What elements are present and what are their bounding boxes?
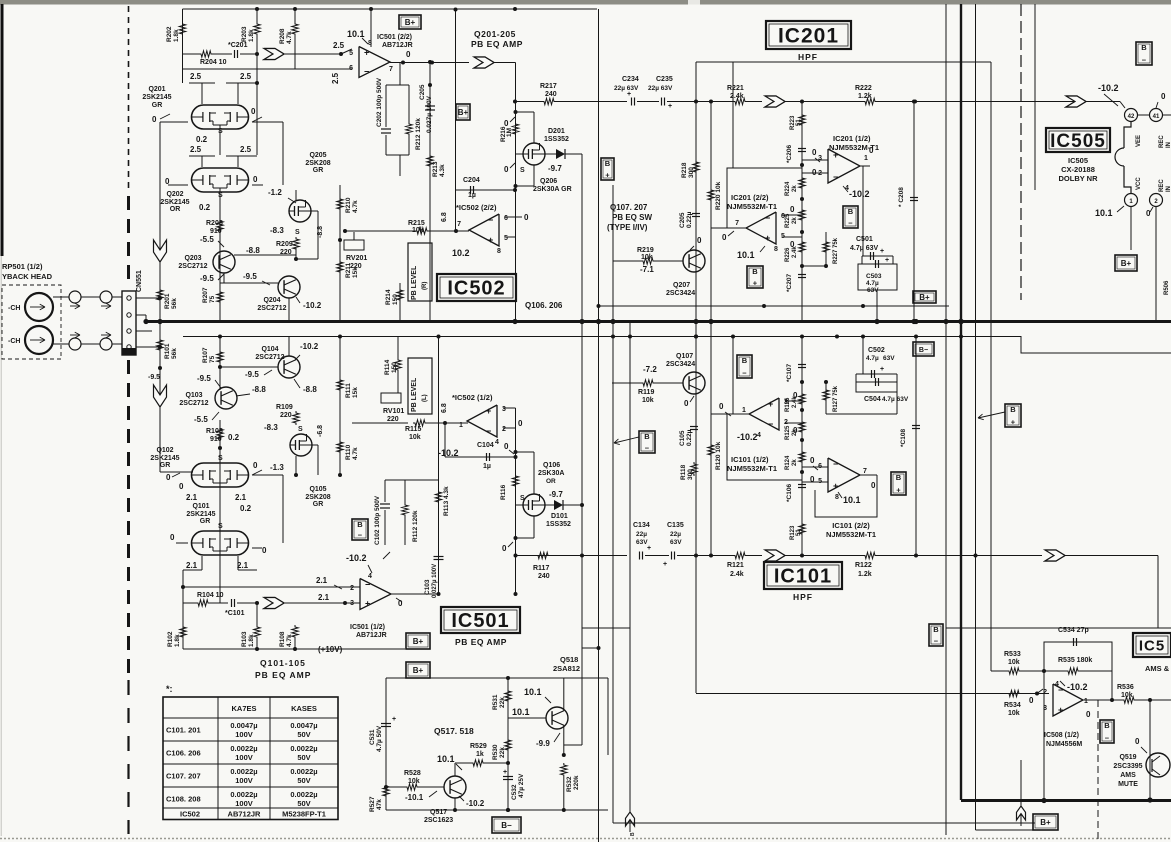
svg-text:−: − [833,459,838,469]
svg-text:-8.8: -8.8 [252,385,266,394]
svg-text:4.7k: 4.7k [352,447,359,460]
svg-text:150: 150 [391,362,398,373]
svg-text:C107. 207: C107. 207 [166,772,201,781]
svg-text:-7.1: -7.1 [640,265,654,274]
svg-text:AB712JR: AB712JR [356,632,387,639]
svg-text:C501: C501 [856,236,873,243]
svg-text:-10.2: -10.2 [346,553,367,563]
svg-text:0: 0 [504,165,509,174]
svg-text:2SA812: 2SA812 [553,664,580,673]
svg-text:0: 0 [722,233,727,242]
svg-text:6: 6 [349,65,353,72]
svg-text:100V: 100V [235,776,253,785]
svg-text:1: 1 [742,407,746,414]
svg-text:-10.2: -10.2 [1098,83,1119,93]
svg-text:VCC: VCC [1136,177,1142,190]
svg-text:NJM5532M-T1: NJM5532M-T1 [826,530,876,539]
svg-text:+: + [668,103,672,110]
svg-text:PB EQ AMP: PB EQ AMP [255,670,311,680]
svg-text:22µ 63V: 22µ 63V [648,85,673,92]
svg-text:B: B [742,356,748,365]
svg-text:-10.2: -10.2 [737,432,758,442]
svg-text:-8.8: -8.8 [303,385,317,394]
svg-text:+: + [768,399,773,409]
svg-text:IC101 (2/2): IC101 (2/2) [832,521,870,530]
svg-text:2: 2 [1043,689,1047,696]
svg-text:B+: B+ [405,18,416,27]
svg-text:-1.3: -1.3 [270,463,284,472]
svg-text:S: S [295,229,300,236]
svg-text:4.7k: 4.7k [286,634,293,647]
svg-text:B: B [1010,405,1016,414]
svg-text:2k: 2k [792,459,798,466]
svg-text:R227 75k: R227 75k [833,237,839,264]
svg-text:10.1: 10.1 [524,687,542,697]
svg-text:B+: B+ [1040,818,1051,827]
svg-text:1: 1 [864,155,868,162]
svg-text:1.8k: 1.8k [173,29,180,42]
svg-text:7: 7 [389,66,393,73]
svg-text:CX-20188: CX-20188 [1061,165,1095,174]
svg-text:R110: R110 [345,444,352,460]
svg-text:IN: IN [1166,186,1171,192]
svg-text:C534 27p: C534 27p [1058,627,1089,634]
svg-text:0: 0 [793,391,798,400]
svg-text:PB EQ AMP: PB EQ AMP [471,39,523,49]
svg-text:R103: R103 [241,631,248,647]
svg-text:-9.7: -9.7 [549,490,563,499]
svg-text:Q204: Q204 [263,297,280,304]
svg-text:2.1: 2.1 [235,493,247,502]
svg-text:63V: 63V [883,355,895,362]
svg-text:(+10V): (+10V) [318,645,343,654]
svg-text:−: − [358,531,363,540]
svg-text:B+: B+ [458,108,469,117]
svg-text:−: − [486,426,491,436]
svg-text:R102: R102 [167,631,174,647]
svg-text:-10.2: -10.2 [1067,682,1088,692]
svg-text:2SC2712: 2SC2712 [257,305,286,312]
svg-text:D201: D201 [548,128,565,135]
svg-text:B: B [630,832,636,836]
svg-text:2SK30A GR: 2SK30A GR [533,186,572,193]
svg-text:Q206: Q206 [540,178,557,185]
svg-text:Q519: Q519 [1119,754,1136,761]
svg-text:4.7µ 63V: 4.7µ 63V [882,396,909,403]
svg-text:4.3k: 4.3k [439,164,446,177]
svg-text:-9.5: -9.5 [200,274,214,283]
svg-text:1k: 1k [476,751,484,758]
svg-text:Q207: Q207 [673,282,690,289]
svg-text:2.5: 2.5 [240,72,252,81]
svg-text:IC101: IC101 [774,566,832,588]
svg-text:*IC502 (1/2): *IC502 (1/2) [452,393,493,402]
svg-text:-9.9: -9.9 [536,739,550,748]
svg-text:2SK2145: 2SK2145 [186,511,215,518]
svg-text:*C101: *C101 [225,610,245,617]
svg-text:150: 150 [392,294,399,305]
svg-text:-CH: -CH [8,338,20,345]
svg-text:KASES: KASES [291,704,317,713]
svg-text:+: + [833,150,838,160]
svg-text:C503: C503 [866,273,882,280]
svg-text:Q101: Q101 [192,503,209,510]
svg-text:VEE: VEE [1136,135,1142,147]
svg-text:2.5: 2.5 [333,41,345,50]
svg-text:240: 240 [545,91,557,98]
svg-text:3: 3 [350,600,354,607]
svg-text:Q203: Q203 [184,255,201,262]
svg-text:2.5: 2.5 [190,72,202,81]
svg-text:0: 0 [871,481,876,490]
svg-text:C102 100p 500V: C102 100p 500V [374,495,381,545]
svg-text:R215: R215 [408,220,425,227]
svg-text:-10.2: -10.2 [303,301,322,310]
svg-text:−: − [833,172,838,182]
svg-text:240: 240 [538,573,550,580]
svg-text:10k: 10k [1008,659,1020,666]
svg-text:R533: R533 [1004,651,1021,658]
svg-text:R213: R213 [432,161,439,177]
svg-text:C135: C135 [667,522,684,529]
svg-text:R101: R101 [164,343,171,359]
svg-text:R203: R203 [241,26,248,42]
svg-text:-7.2: -7.2 [643,365,657,374]
svg-text:-10.2: -10.2 [466,799,485,808]
svg-text:75: 75 [209,295,216,303]
svg-text:1µ: 1µ [468,192,476,199]
svg-text:+: + [896,486,901,495]
svg-text:-8.8: -8.8 [246,246,260,255]
svg-text:C532: C532 [511,784,518,800]
svg-text:6: 6 [504,215,508,222]
svg-text:0: 0 [406,50,411,59]
svg-text:4: 4 [757,432,761,439]
svg-text:R209: R209 [276,241,293,248]
svg-text:R116: R116 [500,484,507,500]
svg-text:0: 0 [166,473,171,482]
svg-text:0: 0 [810,475,815,484]
svg-text:75: 75 [209,355,216,363]
svg-text:2: 2 [502,426,506,433]
svg-text:C205: C205 [679,212,686,228]
svg-text:47µ 25V: 47µ 25V [518,773,525,798]
svg-text:MUTE: MUTE [1118,781,1138,788]
svg-text:0.2: 0.2 [196,135,208,144]
svg-text:R127 75k: R127 75k [833,385,839,412]
svg-text:100V: 100V [235,730,253,739]
svg-text:22µ: 22µ [636,531,647,538]
svg-text:42: 42 [1128,114,1135,120]
svg-text:R222: R222 [855,85,872,92]
svg-text:4.7µ 63V: 4.7µ 63V [850,245,878,252]
svg-text:*C106: *C106 [786,484,793,502]
svg-text:0.0022µ: 0.0022µ [290,744,317,753]
svg-text:100V: 100V [235,753,253,762]
svg-text:1: 1 [1084,698,1088,705]
svg-text:(L): (L) [422,394,428,402]
svg-text:2.1: 2.1 [318,593,330,602]
svg-text:10k: 10k [412,227,424,234]
svg-text:0: 0 [790,240,795,249]
svg-text:10.2: 10.2 [452,248,470,258]
svg-text:S: S [520,167,525,174]
svg-text:22µ: 22µ [670,531,681,538]
svg-text:B−: B− [919,347,928,354]
svg-text:IC508 (1/2): IC508 (1/2) [1044,732,1079,739]
svg-text:CN551: CN551 [136,270,143,292]
svg-text:2: 2 [350,585,354,592]
svg-text:R121: R121 [727,562,744,569]
svg-text:*C201: *C201 [228,42,248,49]
svg-text:+: + [833,481,838,491]
svg-text:PB EQ AMP: PB EQ AMP [455,637,507,647]
svg-text:B−: B− [501,821,512,830]
svg-text:1.8k: 1.8k [248,634,255,647]
svg-text:0.0022µ: 0.0022µ [230,790,257,799]
svg-text:R107: R107 [202,347,209,363]
svg-text:R125: R125 [785,425,791,440]
svg-text:IC201: IC201 [778,25,839,48]
svg-text:Q106. 206: Q106. 206 [525,301,563,310]
svg-text:C105: C105 [679,430,686,446]
svg-text:3: 3 [784,399,788,406]
svg-text:1SS352: 1SS352 [546,521,571,528]
svg-text:+: + [364,48,369,58]
svg-text:220: 220 [350,263,362,270]
svg-text:0: 0 [793,426,798,435]
svg-text:+: + [605,171,610,180]
svg-text:41: 41 [1153,114,1160,120]
svg-text:Q517. 518: Q517. 518 [434,726,474,736]
svg-text:R535 180k: R535 180k [1058,657,1092,664]
svg-text:R108: R108 [279,631,286,647]
svg-text:4.7µ: 4.7µ [866,280,879,287]
svg-text:8: 8 [774,246,778,253]
svg-text:2k: 2k [792,217,798,224]
svg-text:RP501 (1/2): RP501 (1/2) [2,262,43,271]
svg-text:0: 0 [251,107,256,116]
svg-text:4.7k: 4.7k [286,31,293,44]
svg-text:R112 120k: R112 120k [412,510,419,542]
svg-text:GR: GR [200,518,211,525]
svg-text:2.1: 2.1 [186,561,198,570]
svg-text:DOLBY NR: DOLBY NR [1058,174,1098,183]
svg-text:50V: 50V [297,799,310,808]
svg-text:0: 0 [262,546,267,555]
svg-text:−: − [934,637,939,646]
svg-text:C504: C504 [864,396,881,403]
svg-text:D101: D101 [551,513,568,520]
svg-text:220: 220 [280,412,292,419]
svg-text:0: 0 [810,456,815,465]
svg-text:0: 0 [253,461,258,470]
svg-text:Q104: Q104 [261,346,278,353]
svg-text:-10.1: -10.1 [405,793,424,802]
svg-text:R220 10k: R220 10k [715,181,722,210]
svg-text:4: 4 [368,573,372,580]
svg-text:-9.5: -9.5 [243,272,257,281]
svg-text:0.2: 0.2 [240,504,252,513]
svg-text:Q201: Q201 [148,86,165,93]
svg-text:4.7µ 50V: 4.7µ 50V [376,725,383,752]
svg-text:1.8k: 1.8k [248,29,255,42]
svg-text:−: − [645,444,650,453]
svg-text:C502: C502 [868,347,885,354]
svg-text:+: + [647,545,651,552]
svg-text:8: 8 [497,248,501,255]
svg-text:−: − [364,67,369,77]
svg-text:R120 10k: R120 10k [715,441,722,470]
svg-text:GR: GR [313,501,324,508]
svg-text:2SC3395: 2SC3395 [1113,763,1142,770]
svg-text:+: + [392,716,396,723]
svg-text:R219: R219 [637,247,654,254]
svg-text:+: + [503,769,507,776]
svg-text:IC502: IC502 [180,810,200,819]
svg-text:-9.5: -9.5 [148,374,160,381]
svg-text:R221: R221 [727,85,744,92]
svg-text:REC: REC [1159,179,1165,192]
svg-text:-10.2: -10.2 [300,342,319,351]
svg-text:R111: R111 [345,383,352,398]
svg-text:IC101 (1/2): IC101 (1/2) [731,455,769,464]
svg-text:50V: 50V [297,753,310,762]
svg-text:0: 0 [1146,209,1151,218]
svg-text:C104: C104 [477,442,494,449]
svg-text:S: S [218,455,223,462]
svg-text:*:: *: [166,684,173,694]
svg-text:0.0047µ: 0.0047µ [230,721,257,730]
svg-text:R114: R114 [384,359,391,375]
svg-text:IC505: IC505 [1068,156,1088,165]
svg-text:2.5: 2.5 [331,72,340,84]
svg-text:5: 5 [349,50,353,57]
svg-text:0: 0 [518,419,523,428]
svg-text:1.8k: 1.8k [174,634,181,647]
svg-text:-8.3: -8.3 [270,226,284,235]
svg-text:0: 0 [504,119,509,128]
svg-text:0.2: 0.2 [228,433,240,442]
svg-text:0.22µ: 0.22µ [686,211,693,228]
svg-text:R217: R217 [540,83,557,90]
svg-text:AMS: AMS [1120,772,1136,779]
svg-text:YBACK HEAD: YBACK HEAD [2,272,53,281]
svg-text:1.2k: 1.2k [858,93,872,100]
svg-text:0: 0 [179,482,184,491]
svg-text:-9.5: -9.5 [245,370,259,379]
svg-text:7: 7 [457,221,461,228]
svg-text:2SC2712: 2SC2712 [179,400,208,407]
svg-text:100V: 100V [235,799,253,808]
svg-text:10.1: 10.1 [843,495,861,505]
svg-text:C106. 206: C106. 206 [166,749,201,758]
svg-text:63V: 63V [670,539,682,546]
svg-text:−: − [848,219,853,228]
svg-text:10.1: 10.1 [347,29,365,39]
svg-text:R214: R214 [385,289,392,305]
svg-text:+: + [880,366,884,373]
svg-text:Q103: Q103 [185,392,202,399]
svg-text:22k: 22k [499,747,506,758]
svg-text:IC201 (2/2): IC201 (2/2) [731,193,769,202]
svg-text:(R): (R) [422,282,428,290]
svg-text:C101. 201: C101. 201 [166,726,201,735]
svg-text:R536: R536 [1117,684,1134,691]
svg-text:4.7k: 4.7k [352,200,359,213]
svg-text:R117: R117 [533,565,549,572]
svg-text:GR: GR [313,167,324,174]
svg-text:5: 5 [504,235,508,242]
svg-text:2.5: 2.5 [190,145,202,154]
svg-text:REC: REC [1159,135,1165,148]
svg-text:0.2: 0.2 [199,203,211,212]
svg-text:0.027µ 100V: 0.027µ 100V [426,95,433,133]
svg-text:+: + [880,248,884,255]
svg-text:2SK30A: 2SK30A [538,470,564,477]
svg-text:C531: C531 [369,729,376,745]
svg-text:2.4k: 2.4k [730,93,744,100]
svg-text:10.1: 10.1 [737,250,755,260]
svg-text:-1.2: -1.2 [268,188,282,197]
svg-text:22k: 22k [499,697,506,708]
svg-text:1M: 1M [506,128,513,137]
svg-text:0: 0 [502,544,507,553]
svg-text:R210: R210 [345,197,352,213]
svg-text:NJM4556M: NJM4556M [1046,741,1082,748]
svg-text:RV201: RV201 [346,255,367,262]
svg-text:4.7µ: 4.7µ [866,355,879,362]
svg-text:2SC2712: 2SC2712 [255,354,284,361]
svg-text:C205: C205 [419,84,426,100]
svg-text:Q518: Q518 [560,655,578,664]
svg-text:+: + [1011,418,1016,427]
svg-text:R204 10: R204 10 [200,59,227,66]
svg-text:NJM5532M-T1: NJM5532M-T1 [727,464,777,473]
svg-text:GR: GR [160,462,171,469]
svg-text:+: + [486,406,491,416]
svg-text:50V: 50V [297,730,310,739]
svg-text:R104 10: R104 10 [197,592,224,599]
svg-text:R205: R205 [206,220,223,227]
svg-text:R202: R202 [166,26,173,42]
svg-text:2SC2712: 2SC2712 [178,263,207,270]
svg-text:KA7ES: KA7ES [231,704,256,713]
svg-text:R218: R218 [681,162,688,178]
svg-text:IC505: IC505 [1050,131,1106,152]
svg-text:0.22µ: 0.22µ [686,429,693,446]
svg-text:220k: 220k [573,775,580,790]
svg-text:2.1: 2.1 [237,561,249,570]
svg-text:Q101-105: Q101-105 [260,658,306,668]
svg-text:−: − [742,369,747,378]
svg-text:+: + [663,561,667,568]
svg-text:PB LEVEL: PB LEVEL [411,265,418,300]
svg-text:+: + [488,235,493,245]
svg-text:B: B [848,207,854,216]
svg-text:R109: R109 [276,404,293,411]
svg-text:0: 0 [869,146,874,155]
svg-text:IC201 (1/2): IC201 (1/2) [833,134,871,143]
svg-text:R531: R531 [492,694,499,710]
svg-text:B: B [1141,43,1147,52]
svg-text:2.5: 2.5 [240,145,252,154]
svg-text:B: B [644,432,650,441]
svg-text:HPF: HPF [798,52,818,62]
svg-text:* C208: * C208 [898,187,905,207]
svg-text:0: 0 [812,148,817,157]
svg-text:+: + [365,599,370,609]
